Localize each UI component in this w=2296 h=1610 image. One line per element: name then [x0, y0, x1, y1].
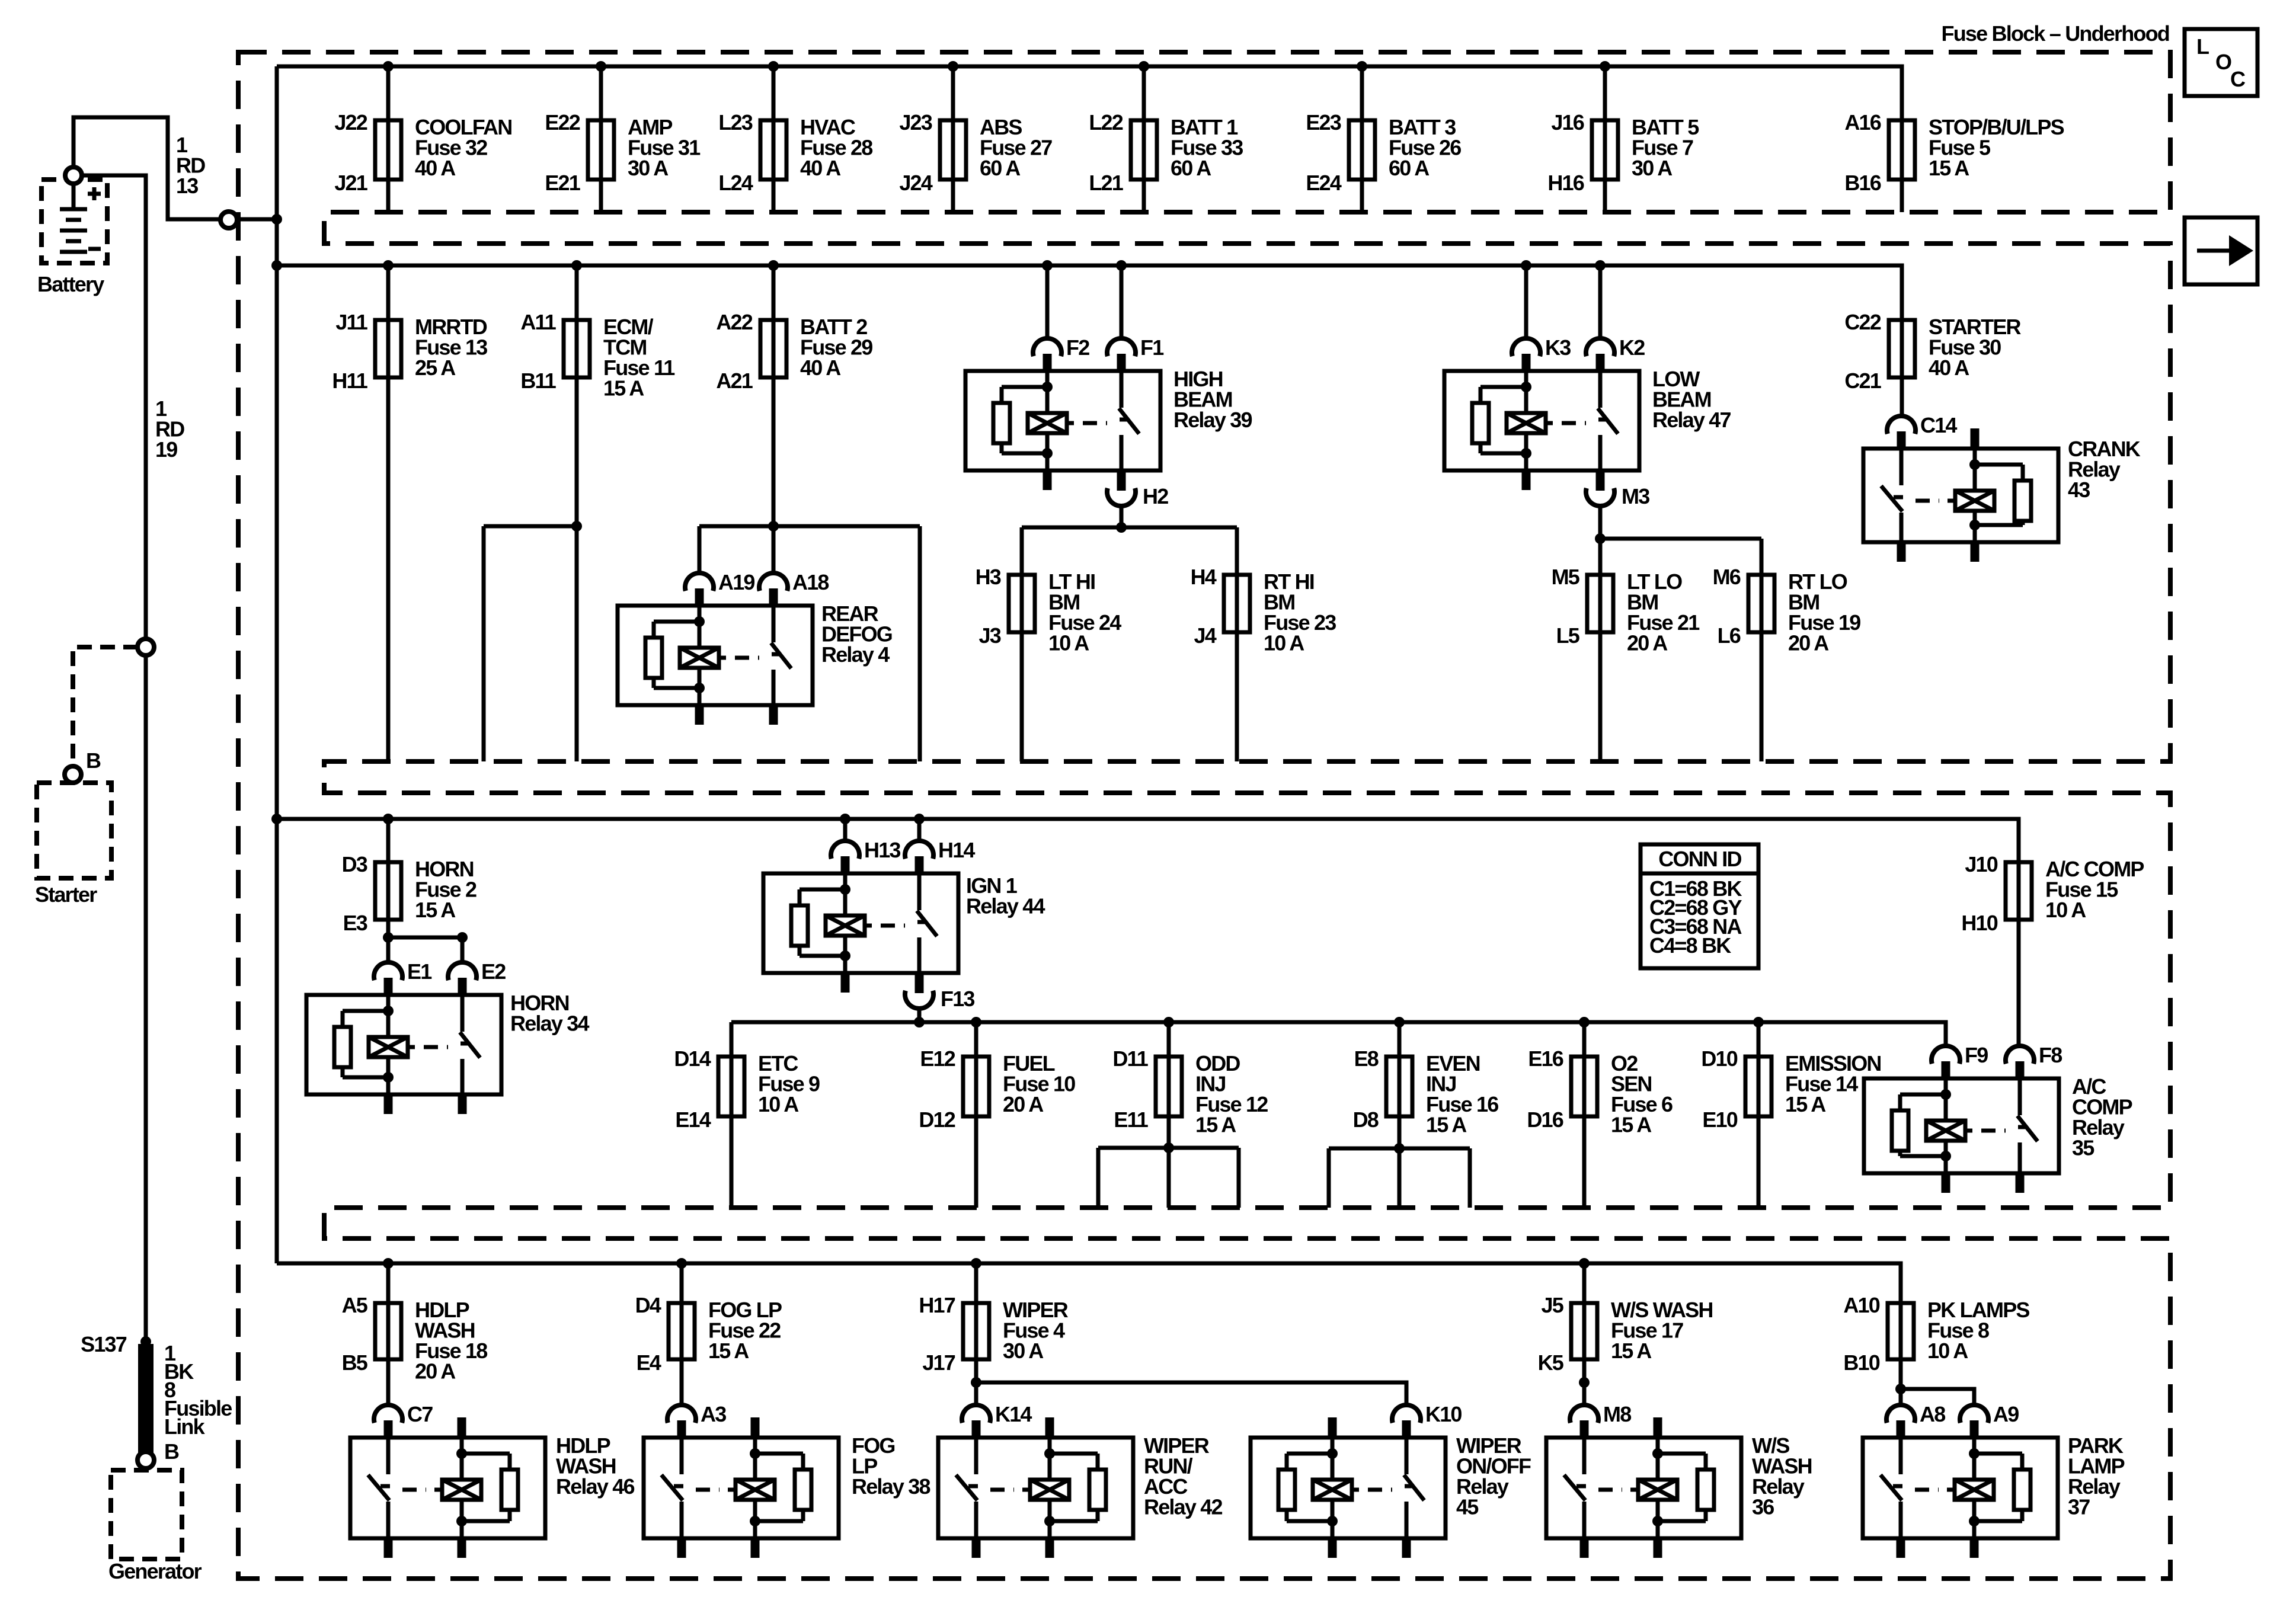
svg-text:Link: Link: [164, 1414, 206, 1439]
svg-text:A10: A10: [1843, 1293, 1879, 1317]
wire fuse F27 ABS output: [951, 180, 955, 212]
svg-text:E11: E11: [1114, 1108, 1148, 1132]
wire fuse F31 AMP output: [599, 180, 603, 212]
wire to C7: [386, 1359, 391, 1405]
svg-text:D10: D10: [1701, 1046, 1737, 1071]
svg-text:20 A: 20 A: [1003, 1092, 1044, 1116]
fuse F21 LT LO BM: [1552, 565, 1700, 655]
junction ws wash net: [1579, 1377, 1590, 1388]
svg-text:25 A: 25 A: [415, 356, 456, 380]
wire HORN output to E2: [388, 937, 462, 962]
svg-text:15 A: 15 A: [1611, 1339, 1652, 1363]
svg-text:K14: K14: [995, 1402, 1032, 1426]
wire bus1 to fuse F33 BATT1: [1142, 66, 1146, 120]
wire sub-bus to fuse F6 O2 SEN: [1582, 1022, 1587, 1057]
svg-text:E12: E12: [920, 1046, 955, 1071]
wire sub-bus: [731, 1022, 1946, 1046]
fuse F5 STOP/B/U/LPS: [1844, 110, 2064, 195]
junction pk lamps net: [1895, 1384, 1906, 1394]
svg-text:C22: C22: [1844, 310, 1881, 334]
wire bus2 to K2: [1598, 265, 1603, 338]
svg-text:Relay 44: Relay 44: [966, 894, 1045, 918]
svg-text:60 A: 60 A: [1389, 156, 1430, 180]
svg-text:30 A: 30 A: [1003, 1339, 1044, 1363]
svg-text:15 A: 15 A: [1195, 1113, 1236, 1137]
fuse F19 RT LO BM: [1713, 565, 1861, 655]
svg-text:20 A: 20 A: [1627, 631, 1668, 655]
wire fuse F24 LT HI BM output: [1020, 632, 1024, 761]
junction bus3 x1426: [840, 814, 850, 824]
svg-text:B: B: [86, 748, 101, 773]
svg-text:B: B: [164, 1439, 179, 1464]
svg-text:E10: E10: [1702, 1108, 1737, 1132]
junction ODD INJ split: [1163, 1142, 1174, 1153]
wire to K14: [974, 1359, 978, 1405]
wire fuse F28 HVAC output: [772, 180, 776, 212]
wire bus row1: [277, 66, 1902, 120]
svg-text:H11: H11: [332, 369, 367, 393]
svg-text:C4=8 BK: C4=8 BK: [1649, 933, 1731, 958]
svg-text:B16: B16: [1844, 171, 1881, 195]
wire bus2 to K3: [1524, 265, 1528, 338]
svg-text:M6: M6: [1713, 565, 1741, 589]
svg-text:E8: E8: [1354, 1046, 1379, 1071]
wire bus3 to H14: [917, 819, 922, 841]
svg-text:J3: J3: [979, 623, 1001, 648]
wire EVEN INJ branch right: [1468, 1148, 1472, 1208]
wire ECM/TCM output B11 down: [575, 377, 579, 761]
wire to RT HI fuse: [1235, 527, 1239, 575]
svg-text:J10: J10: [1965, 852, 1997, 876]
wire fuse F26 BATT3 output: [1360, 180, 1364, 212]
svg-text:A16: A16: [1844, 110, 1881, 135]
wire EVEN INJ output down: [1398, 1116, 1402, 1208]
wire MRRTD output H11: [386, 377, 391, 761]
fuse F13 MRRTD: [332, 310, 487, 393]
fuse F24 LT HI BM: [976, 565, 1122, 655]
wire ODD INJ branch right: [1237, 1148, 1241, 1208]
junction bus4 x655: [383, 1258, 394, 1269]
svg-text:J16: J16: [1551, 110, 1584, 135]
svg-text:M5: M5: [1552, 565, 1580, 589]
svg-text:E3: E3: [343, 911, 367, 935]
wire to generator: [144, 1468, 148, 1471]
wire bus1 to fuse F27 ABS: [951, 66, 955, 120]
dashed wire ring to starter box: [71, 782, 75, 784]
svg-text:Starter: Starter: [35, 882, 97, 907]
svg-text:J23: J23: [899, 110, 932, 135]
wire fuse F33 BATT1 output: [1142, 180, 1146, 212]
svg-text:10 A: 10 A: [2045, 898, 2086, 922]
relay R44 IGN 1: [763, 838, 1045, 1011]
relay R34 HORN: [306, 959, 589, 1114]
junction bus2 x1892: [1116, 260, 1127, 271]
svg-text:A19: A19: [718, 570, 754, 594]
svg-text:D3: D3: [342, 852, 367, 876]
fuse F33 BATT1: [1089, 110, 1243, 195]
LOC box: [2185, 29, 2257, 96]
wire ODD INJ branch left: [1096, 1148, 1101, 1208]
fuse F16 EVEN INJ: [1353, 1046, 1499, 1137]
junction S137: [140, 1336, 151, 1347]
svg-text:C7: C7: [407, 1402, 433, 1426]
junction sub-bus x2361: [1394, 1017, 1405, 1028]
svg-text:D8: D8: [1353, 1108, 1379, 1132]
svg-text:D14: D14: [674, 1046, 711, 1071]
svg-text:30 A: 30 A: [1632, 156, 1673, 180]
fuse F9 ETC: [674, 1046, 820, 1132]
svg-text:40 A: 40 A: [415, 156, 456, 180]
wire bus4 to fuse F17 W/S WASH: [1582, 1263, 1587, 1303]
svg-text:F8: F8: [2039, 1043, 2062, 1067]
wire to RT LO fuse: [1760, 539, 1764, 575]
fuse F18 HDLP WASH: [342, 1293, 488, 1384]
svg-text:F2: F2: [1066, 335, 1089, 360]
junction bus1 x1014: [596, 61, 606, 72]
wire H2 horiz: [1022, 526, 1237, 530]
svg-text:K2: K2: [1619, 335, 1645, 360]
wire bus4 to fuse F18 HDLP WASH: [386, 1263, 391, 1303]
svg-text:H3: H3: [976, 565, 1001, 589]
svg-text:Relay 39: Relay 39: [1173, 408, 1252, 432]
wire bus row4: [277, 1263, 1901, 1303]
svg-text:15 A: 15 A: [603, 376, 644, 401]
svg-text:10 A: 10 A: [1048, 631, 1089, 655]
svg-text:L: L: [2196, 34, 2209, 59]
wire to A3: [680, 1359, 684, 1405]
fusible link bar 1 BK 8: [138, 1344, 154, 1453]
battery minus sign: [88, 247, 101, 251]
svg-text:37: 37: [2068, 1495, 2090, 1519]
svg-text:E22: E22: [545, 110, 580, 135]
svg-text:E23: E23: [1306, 110, 1341, 135]
junction bus1 x655: [383, 61, 394, 72]
junction sub-bus x1972: [1163, 1017, 1174, 1028]
svg-text:J5: J5: [1542, 1293, 1564, 1317]
svg-text:40 A: 40 A: [800, 356, 841, 380]
fuse F2 HORN: [342, 852, 477, 935]
svg-text:Relay 46: Relay 46: [556, 1474, 634, 1499]
svg-text:K10: K10: [1425, 1402, 1462, 1426]
wire BATT2 output down to A18: [772, 377, 776, 573]
wire A/C COMP fuse output to F8: [2017, 920, 2021, 1046]
junction bus1 x1608: [948, 61, 958, 72]
junction wiper net: [971, 1377, 981, 1388]
wire ODD INJ output horiz: [1098, 1146, 1239, 1150]
svg-text:15 A: 15 A: [1785, 1092, 1826, 1116]
svg-text:L23: L23: [718, 110, 752, 135]
junction feed entry: [271, 214, 282, 225]
wire F13 to sub-bus: [917, 1009, 922, 1022]
wire EVEN INJ branch left: [1327, 1148, 1331, 1208]
wire bus2 to F2: [1045, 265, 1050, 338]
wire bus4 to fuse F22 FOG LP: [680, 1263, 684, 1303]
wire O2 SEN output: [1582, 1116, 1587, 1208]
CONN ID table: [1641, 844, 1758, 968]
wire bus row3: [277, 819, 2019, 862]
wire to M8: [1582, 1359, 1587, 1405]
fuse block outline (dashed): [238, 52, 2170, 1579]
junction bus2 x973: [571, 260, 582, 271]
svg-text:J4: J4: [1194, 623, 1217, 648]
wire to LT HI fuse: [1020, 527, 1024, 575]
svg-text:O: O: [2215, 50, 2231, 74]
svg-text:45: 45: [1456, 1495, 1479, 1519]
wire to A9: [1901, 1389, 1974, 1405]
junction sub-bus x1551: [914, 1017, 925, 1028]
svg-text:Relay 38: Relay 38: [852, 1474, 930, 1499]
wire BATT2 output horiz: [699, 524, 920, 529]
wire fuse F5 STOP/B/U/LPS output: [1900, 180, 1904, 212]
fuse F17 W/S WASH: [1538, 1293, 1713, 1375]
junction bus2 x1767: [1042, 260, 1053, 271]
svg-text:60 A: 60 A: [980, 156, 1021, 180]
svg-text:E1: E1: [407, 959, 432, 984]
fuse F15 A/C COMP: [1961, 852, 2144, 935]
svg-text:J21: J21: [334, 171, 367, 195]
svg-text:60 A: 60 A: [1171, 156, 1211, 180]
svg-text:H4: H4: [1191, 565, 1217, 589]
svg-text:A21: A21: [716, 369, 753, 393]
fuse F32 COOLFAN: [334, 110, 511, 195]
svg-text:20 A: 20 A: [1788, 631, 1829, 655]
svg-text:Relay 42: Relay 42: [1144, 1495, 1222, 1519]
svg-text:E4: E4: [637, 1350, 661, 1375]
svg-text:E2: E2: [481, 959, 506, 984]
wire sub-bus to fuse F16 EVEN INJ: [1398, 1022, 1402, 1057]
svg-text:M8: M8: [1603, 1402, 1631, 1426]
svg-text:M3: M3: [1622, 484, 1649, 508]
relay R46 HDLP WASH: [350, 1402, 634, 1558]
fuse F4 WIPER: [919, 1293, 1068, 1375]
junction bus4 x2673: [1579, 1258, 1590, 1269]
wire FUEL output: [974, 1116, 978, 1208]
wire bus2 to fuse F11 ECM/TCM: [575, 265, 579, 320]
junction bus1 x1930: [1139, 61, 1149, 72]
svg-text:F1: F1: [1140, 335, 1164, 360]
svg-text:J24: J24: [899, 171, 932, 195]
svg-text:L24: L24: [718, 171, 753, 195]
svg-text:H14: H14: [938, 838, 975, 862]
junction horn net E2: [457, 932, 468, 943]
junction bus2 x655: [383, 260, 394, 271]
svg-text:H16: H16: [1547, 171, 1584, 195]
wire sub-bus to fuse F14 EMISSION: [1757, 1022, 1761, 1057]
junction ECM/TCM output split: [571, 521, 582, 532]
svg-text:D4: D4: [635, 1293, 661, 1317]
svg-text:Battery: Battery: [37, 272, 104, 296]
wire bus1 to fuse F7 BATT5: [1603, 66, 1607, 120]
svg-text:15 A: 15 A: [1611, 1113, 1652, 1137]
junction bus3 x655: [383, 814, 394, 824]
wire sub-bus to ETC fuse: [730, 1022, 734, 1057]
svg-text:C: C: [2230, 67, 2246, 91]
relay R42 WIPER RUN/ACC: [938, 1402, 1222, 1558]
fuse F27 ABS: [899, 110, 1052, 195]
relay R37 PARK LAMP: [1863, 1402, 2125, 1558]
wire bus4 to fuse F4 WIPER: [974, 1263, 978, 1303]
svg-text:CONN ID: CONN ID: [1658, 847, 1741, 871]
inline connector ring on feed wire: [220, 212, 237, 228]
fuse F31 AMP: [545, 110, 701, 195]
wire ECM/TCM output branch down: [482, 526, 486, 761]
relay R45 WIPER ON/OFF: [1251, 1402, 1531, 1558]
svg-text:19: 19: [155, 437, 177, 462]
wire STARTER output to C14: [1900, 377, 1904, 416]
fuse F6 O2 SEN: [1527, 1046, 1673, 1137]
splice ring to starter branch: [137, 639, 154, 655]
svg-text:L22: L22: [1089, 110, 1123, 135]
svg-text:A3: A3: [701, 1402, 726, 1426]
junction bus2 x2575: [1521, 260, 1531, 271]
svg-text:L5: L5: [1556, 623, 1580, 648]
junction bus2 x1305: [768, 260, 779, 271]
fuse F11 ECM/TCM: [520, 310, 675, 401]
svg-text:10 A: 10 A: [1927, 1339, 1968, 1363]
generator dashed box: [111, 1470, 182, 1559]
junction feeder/bus3: [271, 814, 282, 824]
wire H2 drop: [1120, 507, 1124, 527]
svg-text:F9: F9: [1965, 1043, 1988, 1067]
svg-text:H17: H17: [919, 1293, 955, 1317]
battery cell plates: [60, 184, 87, 252]
wire bus row2: [277, 265, 1902, 320]
starter B terminal ring: [65, 766, 81, 783]
svg-text:Relay 47: Relay 47: [1652, 408, 1731, 432]
starter dashed box: [37, 783, 111, 878]
svg-text:D12: D12: [919, 1108, 955, 1132]
svg-text:Fuse Block – Underhood: Fuse Block – Underhood: [1942, 21, 2169, 46]
svg-text:36: 36: [1752, 1495, 1774, 1519]
relay R43 CRANK: [1863, 413, 2141, 562]
junction sub-bus x2967: [1753, 1017, 1764, 1028]
wire M3 drop to LT LO: [1598, 507, 1603, 575]
junction M3 net: [1595, 533, 1606, 544]
junction sub-bus x1647: [971, 1017, 981, 1028]
wire fuse F21 LT LO BM output: [1598, 632, 1603, 761]
junction bus1 x2298: [1357, 61, 1367, 72]
fuse F30 STARTER: [1844, 310, 2021, 393]
svg-text:B10: B10: [1843, 1350, 1879, 1375]
fuse F29 BATT2: [716, 310, 872, 393]
svg-text:A18: A18: [792, 570, 829, 594]
svg-text:H13: H13: [864, 838, 900, 862]
svg-text:A5: A5: [342, 1293, 368, 1317]
wire sub-bus to fuse F10 FUEL: [974, 1022, 978, 1057]
svg-text:35: 35: [2072, 1136, 2094, 1160]
svg-text:S137: S137: [81, 1332, 127, 1356]
wire fuse F19 RT LO BM output: [1760, 632, 1764, 761]
off-page arrow box: [2185, 217, 2257, 284]
svg-text:43: 43: [2068, 478, 2090, 502]
junction bus4 x1150: [676, 1258, 687, 1269]
fuse F10 FUEL: [919, 1046, 1075, 1132]
svg-text:Relay 4: Relay 4: [821, 642, 890, 667]
wire to K10: [976, 1382, 1406, 1405]
svg-text:K5: K5: [1538, 1350, 1564, 1375]
svg-text:10 A: 10 A: [758, 1092, 799, 1116]
svg-text:20 A: 20 A: [415, 1359, 456, 1384]
wire bus1 to fuse F28 HVAC: [772, 66, 776, 120]
wire ODD INJ output down: [1167, 1116, 1171, 1208]
svg-text:F13: F13: [941, 987, 974, 1011]
wire to A8: [1899, 1359, 1903, 1405]
wire bus1 to fuse F32 COOLFAN: [386, 66, 391, 120]
svg-text:L6: L6: [1718, 623, 1741, 648]
wire bus3 to H13: [843, 819, 848, 841]
svg-text:K3: K3: [1545, 335, 1571, 360]
svg-text:B5: B5: [342, 1350, 368, 1375]
wire sub-bus to fuse F12 ODD INJ: [1167, 1022, 1171, 1057]
wire branch to A19: [698, 526, 702, 573]
wire bus2 to fuse F29 BATT2: [772, 265, 776, 320]
svg-text:Generator: Generator: [108, 1559, 202, 1583]
wire EMISSION output: [1757, 1116, 1761, 1208]
svg-text:15 A: 15 A: [415, 898, 456, 922]
battery plus sign: [88, 187, 101, 200]
junction bus4 x1647: [971, 1258, 981, 1269]
fusible link lower ring: [137, 1452, 154, 1468]
dashed wire to starter: [73, 647, 138, 764]
battery dashed box: [41, 180, 107, 263]
junction H2 net: [1116, 522, 1127, 533]
svg-text:15 A: 15 A: [708, 1339, 749, 1363]
junction sub-bus x2673: [1579, 1017, 1590, 1028]
wire bus1 to fuse F26 BATT3: [1360, 66, 1364, 120]
wire ECM/TCM output branch horiz: [484, 524, 577, 529]
svg-text:J17: J17: [922, 1350, 955, 1375]
junction BATT2 output split: [768, 521, 779, 532]
svg-text:15 A: 15 A: [1426, 1113, 1467, 1137]
junction feeder/bus2: [271, 260, 282, 271]
wire bus2 to fuse F13 MRRTD: [386, 265, 391, 320]
junction bus1 x1305: [768, 61, 779, 72]
fuse F12 ODD INJ: [1112, 1046, 1268, 1137]
junction horn net: [383, 932, 394, 943]
svg-text:A11: A11: [520, 310, 556, 334]
relay R36 W/S WASH: [1546, 1402, 1812, 1558]
wire bus3 to HORN fuse: [386, 819, 391, 862]
fuse F14 EMISSION: [1701, 1046, 1881, 1132]
wire bus1 to fuse F31 AMP: [599, 66, 603, 120]
fuse F26 BATT3: [1306, 110, 1461, 195]
wire branch exits block: [918, 526, 922, 761]
svg-text:E14: E14: [675, 1108, 711, 1132]
junction EVEN INJ split: [1394, 1143, 1405, 1154]
svg-text:J11: J11: [335, 310, 367, 334]
relay R4 REAR DEFOG: [618, 570, 892, 725]
svg-text:D11: D11: [1112, 1046, 1148, 1071]
fuse F23 RT HI BM: [1191, 565, 1336, 655]
svg-text:10 A: 10 A: [1264, 631, 1304, 655]
wire battery feed 1 RD 13: [73, 117, 277, 219]
svg-text:D16: D16: [1527, 1108, 1563, 1132]
svg-text:E21: E21: [545, 171, 580, 195]
svg-text:40 A: 40 A: [1929, 356, 1969, 380]
fuse F28 HVAC: [718, 110, 872, 195]
svg-text:C21: C21: [1844, 369, 1881, 393]
wire fuse F32 COOLFAN output: [386, 180, 391, 212]
junction bus2 x2700: [1595, 260, 1606, 271]
wire fuse F7 BATT5 output: [1603, 180, 1607, 212]
wire main feeder x467: [275, 66, 279, 1263]
battery terminal ring: [65, 167, 82, 184]
relay R39 HIGH BEAM: [965, 335, 1252, 508]
svg-text:B11: B11: [520, 369, 556, 393]
fuse F7 BATT5: [1547, 110, 1699, 195]
junction bus3 x1551: [914, 814, 925, 824]
svg-text:A8: A8: [1920, 1402, 1945, 1426]
